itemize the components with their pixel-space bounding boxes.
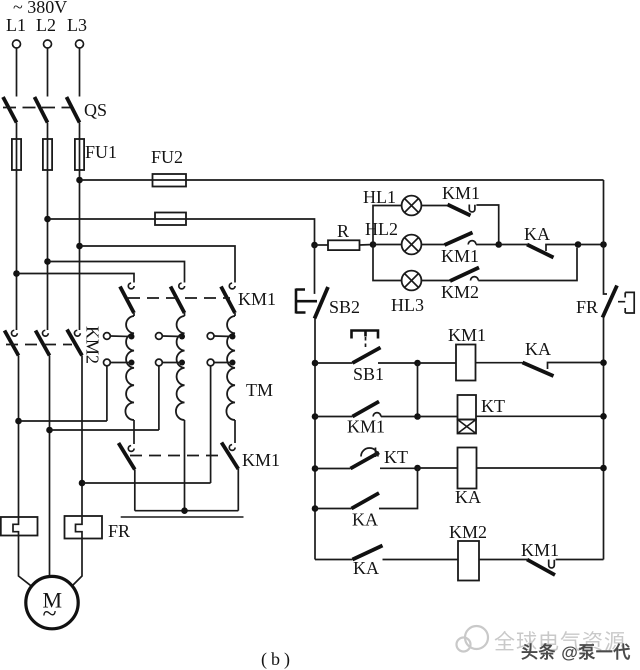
- node phase3 / control rail1: [76, 177, 83, 184]
- wire KA coil to right bus: [477, 467, 604, 469]
- contact KT delayed NO (row C): [315, 468, 351, 470]
- contactor KM1 star contact1: [128, 446, 134, 452]
- coil KT with delay box: [458, 395, 477, 420]
- contactor KM1 star contact2: [229, 445, 235, 451]
- TM winding3 tap dots: [230, 334, 236, 340]
- KM2 coupling dashed link: [6, 344, 72, 346]
- QS coupling dashed link: [3, 107, 70, 109]
- fuse FU1 pole3: [75, 139, 84, 170]
- contact KM2 NO (HL3 branch): [450, 268, 479, 282]
- switch QS pole2 blade: [35, 97, 48, 123]
- wire row C to KA coil: [418, 467, 458, 469]
- contact KM1 NC (row D): [527, 560, 555, 576]
- contact KM1 NC (HL1 branch): [448, 205, 471, 216]
- wire KM1-3 to winding3: [234, 313, 236, 316]
- wire tap1 horizontal: [19, 420, 107, 422]
- svg-text:KA: KA: [455, 487, 481, 507]
- fuse FU2 lower: [155, 213, 186, 226]
- node phase1 feed KM1-1: [13, 270, 20, 277]
- contactor KM2 main contact1: [12, 330, 18, 336]
- lamp HL1: [402, 196, 422, 216]
- node left bus row A: [312, 360, 319, 367]
- svg-text:KM1: KM1: [442, 183, 480, 203]
- contact KM1 NO (HL2 branch): [445, 233, 473, 246]
- svg-text:KM2: KM2: [449, 522, 487, 542]
- wire QS2 to FU1: [47, 123, 49, 140]
- svg-text:(b): (b): [261, 649, 294, 670]
- wire phase2 lower vertical: [49, 356, 51, 577]
- wire QS3 to FU1: [79, 123, 81, 140]
- fuse FU2 upper: [153, 174, 187, 187]
- wire L1 drop: [16, 48, 18, 97]
- wire HL2 branch: [373, 244, 402, 246]
- TM tap terminal circles winding2: [156, 333, 163, 340]
- wire FR1 to motor: [19, 536, 32, 586]
- wire tap2 down: [158, 366, 160, 430]
- svg-text:SB1: SB1: [353, 364, 384, 384]
- fuse FU1 pole2: [43, 139, 52, 170]
- node HL3 return: [575, 241, 582, 248]
- left bus: [314, 319, 316, 560]
- coil KM1: [456, 345, 476, 381]
- wire KM2 coil to KM1 NC: [479, 559, 527, 561]
- node phase2 / control rail2: [44, 216, 51, 223]
- KM1 star coupling dashed link: [130, 455, 225, 457]
- node left bus row C: [312, 465, 319, 472]
- contactor KM2 main contact2: [43, 330, 49, 336]
- wire feed phase2 to KM1 contact2: [48, 262, 185, 283]
- wire L2 drop: [47, 48, 49, 97]
- svg-text:头条 @泵一代: 头条 @泵一代: [521, 642, 631, 662]
- svg-text:KM1: KM1: [242, 450, 280, 470]
- wire HL3 to KM2 NO: [421, 280, 450, 282]
- resistor R: [315, 244, 329, 246]
- node tap3 to phase3: [79, 480, 86, 487]
- TM tap terminal circles winding3: [207, 333, 214, 340]
- svg-text:HL1: HL1: [363, 187, 396, 207]
- contact KM1 NO aux (row B): [315, 416, 353, 418]
- contact KA NC (lamp line): [499, 244, 527, 246]
- right bus lower: [603, 318, 605, 560]
- TM winding2 tap dots: [179, 334, 185, 340]
- node right bus row B: [600, 413, 607, 420]
- wire phase2 vertical FU1 to KM2: [47, 170, 49, 330]
- right bus upper: [604, 180, 608, 294]
- svg-text:L3: L3: [67, 15, 87, 35]
- wire tap3 down: [210, 366, 212, 483]
- contactor KM1 main contact2: [179, 283, 185, 289]
- svg-text:FU1: FU1: [85, 142, 117, 162]
- node row A self-hold: [414, 360, 421, 367]
- svg-text:KT: KT: [481, 396, 505, 416]
- contact KA NO (row D): [353, 546, 383, 560]
- star bar underline: [121, 516, 244, 518]
- switch QS pole3 blade: [67, 97, 80, 123]
- wire HL1 to KM1 NC: [421, 205, 447, 207]
- wire L3 drop: [79, 48, 81, 97]
- svg-text:HL2: HL2: [365, 219, 398, 239]
- node right bus row A: [600, 359, 607, 366]
- wire winding1 bottom: [133, 420, 135, 444]
- svg-text:KM1: KM1: [448, 325, 486, 345]
- wire star contact1 down: [134, 470, 136, 511]
- svg-text:KA: KA: [353, 558, 379, 578]
- TM tap terminal circles winding1: [104, 333, 111, 340]
- contactor KM2 main contact3: [75, 330, 81, 336]
- wire QS1 to FU1: [16, 123, 18, 140]
- wire phase3 vertical FU1 to KM2: [79, 170, 81, 330]
- terminal L2: [44, 40, 52, 48]
- wire left bus row D corner: [315, 559, 353, 561]
- wire tap1 down: [106, 366, 108, 421]
- node right bus lamp line: [600, 241, 607, 248]
- svg-text:SB2: SB2: [329, 297, 360, 317]
- contactor KM1 main contact3: [229, 283, 235, 289]
- node lamp branch split: [370, 241, 377, 248]
- svg-text:QS: QS: [84, 100, 107, 120]
- svg-text:R: R: [337, 221, 349, 241]
- wire KM1-2 to winding2: [184, 313, 186, 316]
- wire to right bus: [578, 244, 604, 246]
- contactor KM1 main contact1: [128, 283, 134, 289]
- switch QS pole1 blade: [3, 97, 17, 123]
- wire HL2 to KM1 NO: [421, 244, 444, 246]
- svg-text:KA: KA: [524, 224, 550, 244]
- wire feed phase1 to KM1 contact1: [17, 274, 135, 283]
- control rail1 top: [80, 179, 604, 181]
- node star bar winding2: [181, 507, 188, 514]
- node tap1 to phase1: [15, 418, 22, 425]
- node left bus row C2: [312, 505, 319, 512]
- KM1 main coupling dashed link: [128, 297, 230, 299]
- wire self-hold vertical: [417, 363, 419, 417]
- svg-text:FU2: FU2: [151, 147, 183, 167]
- autotransformer TM winding3: [226, 316, 235, 420]
- coil KM2: [458, 541, 479, 581]
- left bus top / SB2 wire: [314, 245, 316, 294]
- svg-text:L1: L1: [6, 15, 26, 35]
- wire KM1-1 to winding1: [133, 313, 135, 316]
- lamp HL3: [402, 271, 422, 291]
- svg-text:KM1: KM1: [521, 540, 559, 560]
- wire HL1 branch up: [373, 206, 402, 245]
- svg-text:~: ~: [43, 599, 57, 628]
- wire row A to KM1 coil: [418, 362, 457, 364]
- node phase2 feed KM1-2: [44, 258, 51, 265]
- svg-text:L2: L2: [36, 15, 56, 35]
- pushbutton SB1 NO: [315, 362, 353, 364]
- node R left: [311, 242, 318, 249]
- contact KA NO (row C2): [315, 508, 352, 510]
- lamp HL2: [402, 235, 422, 255]
- svg-text:FR: FR: [576, 297, 598, 317]
- node tap2 to phase2: [46, 427, 53, 434]
- wire FR2 to motor: [73, 539, 83, 586]
- svg-text:KM1: KM1: [347, 417, 385, 437]
- svg-text:KM2: KM2: [441, 282, 479, 302]
- svg-text:KA: KA: [525, 339, 551, 359]
- thermal relay FR heater1: [1, 517, 38, 536]
- wire winding2 bottom to star bar: [184, 420, 186, 511]
- svg-text:TM: TM: [246, 380, 273, 400]
- node phase3 feed KM1-3: [76, 243, 83, 250]
- svg-text:KM1: KM1: [238, 289, 276, 309]
- node right bus row C: [600, 465, 607, 472]
- terminal L3: [76, 40, 84, 48]
- wire phase1 lower vertical: [18, 356, 20, 518]
- node HL1 return: [495, 241, 502, 248]
- fuse FU1 pole1: [12, 139, 21, 170]
- svg-text:KT: KT: [384, 447, 408, 467]
- motor M: [26, 576, 78, 628]
- wire feed phase3 to KM1 contact3: [80, 246, 236, 283]
- coil KA: [458, 448, 477, 489]
- wire phase3 lower vertical: [81, 356, 83, 517]
- terminal L1: [13, 40, 21, 48]
- node left bus row B: [312, 413, 319, 420]
- control rail2: [48, 219, 315, 245]
- svg-text:HL3: HL3: [391, 295, 424, 315]
- svg-text:KM2: KM2: [83, 326, 103, 364]
- wire star contact2 down: [237, 469, 239, 511]
- autotransformer TM winding1: [125, 316, 134, 420]
- contact KA NC (row A): [523, 363, 554, 377]
- wire star bar: [135, 510, 239, 512]
- svg-text:FR: FR: [108, 521, 130, 541]
- watermark logo: [457, 626, 489, 652]
- node row B: [414, 413, 421, 420]
- contact FR NC (right bus): [603, 286, 618, 318]
- wire KM1 coil to KA NC: [476, 362, 523, 364]
- wire phase1 vertical FU1 to KM2: [16, 170, 18, 330]
- TM winding1 tap dots: [129, 334, 135, 340]
- svg-text:KA: KA: [352, 510, 378, 530]
- wire tap3 horizontal: [82, 482, 211, 484]
- pushbutton SB2 NC: [296, 289, 317, 314]
- wire KT coil to right bus: [476, 415, 604, 417]
- wire HL3 branch down: [373, 245, 402, 281]
- autotransformer TM winding2: [176, 316, 185, 420]
- thermal relay FR heater2: [65, 516, 103, 539]
- wire row B to KT coil: [418, 416, 458, 418]
- wire winding3 bottom: [234, 420, 236, 443]
- node row C: [414, 465, 421, 472]
- wire tap2 horizontal: [50, 429, 159, 431]
- svg-text:KM1: KM1: [441, 246, 479, 266]
